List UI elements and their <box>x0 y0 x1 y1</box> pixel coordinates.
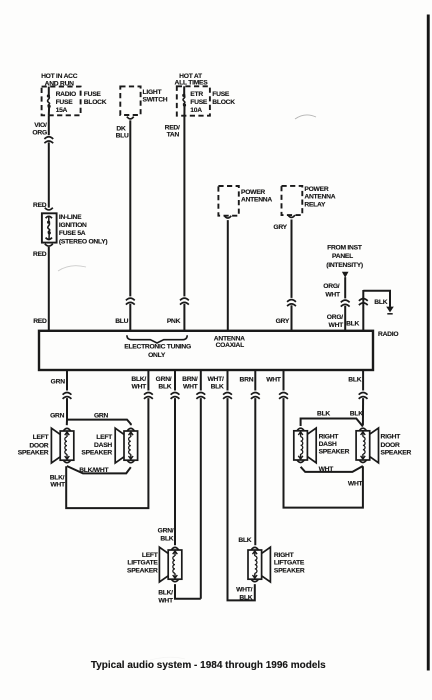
arrow from inst panel <box>342 272 349 278</box>
svg-text:SPEAKER: SPEAKER <box>18 450 49 457</box>
wire ORG/WHT dimmer feed <box>344 277 346 298</box>
light switch S1 dashed box <box>120 86 140 115</box>
svg-text:RED/: RED/ <box>165 124 180 131</box>
svg-text:ORG: ORG <box>32 130 47 137</box>
wire WHT between right speakers <box>301 466 363 472</box>
svg-text:ELECTRONIC TUNING: ELECTRONIC TUNING <box>124 344 191 351</box>
speaker LS2 left dash <box>115 428 137 463</box>
svg-text:LEFT: LEFT <box>142 552 159 559</box>
wire BLK ground jumper <box>363 291 390 331</box>
svg-text:(INTENSITY): (INTENSITY) <box>326 262 363 269</box>
svg-text:COAXIAL: COAXIAL <box>216 342 245 349</box>
svg-text:WHT: WHT <box>158 597 174 604</box>
power antenna M1 dashed box <box>218 186 238 216</box>
svg-text:BLK/: BLK/ <box>131 376 146 383</box>
svg-text:ORG/: ORG/ <box>323 283 339 290</box>
svg-text:WHT: WHT <box>348 480 364 487</box>
svg-text:BRN: BRN <box>240 376 254 383</box>
wire BLK/WHT left liftgate return <box>175 584 201 599</box>
svg-text:BLOCK: BLOCK <box>84 99 107 106</box>
svg-text:PNK: PNK <box>167 318 181 325</box>
svg-text:ANTENNA: ANTENNA <box>304 194 335 201</box>
scan edge bar (decor) <box>427 15 430 671</box>
wire GRN/BLK left liftgate feed <box>174 370 176 390</box>
speaker LS3 left liftgate <box>159 547 181 582</box>
wire GRY to radio <box>291 305 293 331</box>
svg-text:FUSE: FUSE <box>190 99 208 106</box>
speaker RS2 right door <box>356 428 378 463</box>
svg-text:BRN/: BRN/ <box>182 376 198 383</box>
svg-text:BLOCK: BLOCK <box>212 99 235 106</box>
svg-text:RADIO: RADIO <box>56 91 76 98</box>
svg-text:FUSE: FUSE <box>56 99 74 106</box>
wire DK BLU from light switch <box>129 120 131 296</box>
svg-text:LIGHT: LIGHT <box>143 89 163 96</box>
wire PNK to radio <box>183 304 185 331</box>
svg-text:BLK/: BLK/ <box>158 589 173 596</box>
svg-text:GRY: GRY <box>276 318 290 325</box>
fuse block F1 (RADIO FUSE 15A) dashed box <box>42 87 81 116</box>
svg-text:BLK: BLK <box>239 595 252 602</box>
svg-text:LEFT: LEFT <box>33 434 50 441</box>
wire BLK/WHT left return <box>147 370 149 390</box>
svg-text:BLK: BLK <box>160 536 173 543</box>
svg-text:GRN: GRN <box>50 412 65 419</box>
wire BRN right liftgate feed <box>254 370 256 390</box>
svg-text:RIGHT: RIGHT <box>274 552 295 559</box>
svg-text:ORG/: ORG/ <box>327 314 343 321</box>
wire GRN branch to left dash speaker <box>67 420 131 426</box>
in-line ignition fuse F2 box <box>42 213 57 242</box>
svg-text:WHT: WHT <box>319 466 335 473</box>
svg-text:FUSE: FUSE <box>212 91 230 98</box>
svg-text:SWITCH: SWITCH <box>143 97 168 104</box>
ground G1 <box>386 307 394 314</box>
wire BLU to radio <box>129 304 131 331</box>
svg-text:10A: 10A <box>190 107 202 114</box>
svg-text:BLU: BLU <box>115 318 128 325</box>
wire GRN left door feed <box>66 370 68 390</box>
svg-text:IGNITION: IGNITION <box>59 222 87 229</box>
connector cup below relay <box>288 215 295 217</box>
wire WHT/BLK right liftgate return <box>227 370 229 390</box>
fuse block F3 (ETR FUSE 10A) dashed box <box>177 86 210 115</box>
svg-text:IN-LINE: IN-LINE <box>59 214 82 221</box>
svg-text:BLK: BLK <box>346 321 359 328</box>
svg-text:DOOR: DOOR <box>29 442 48 449</box>
svg-text:LIFTGATE: LIFTGATE <box>127 560 158 567</box>
in-line fuse internal symbol <box>46 216 52 218</box>
svg-text:BLK: BLK <box>238 537 251 544</box>
svg-text:POWER: POWER <box>304 186 328 193</box>
svg-text:RELAY: RELAY <box>304 202 326 209</box>
fuse ETR FUSE 10A symbol <box>183 86 185 95</box>
wire BLK right door feed <box>362 370 364 390</box>
wire BLK branch to right dash speaker <box>301 419 363 427</box>
svg-text:GRN/: GRN/ <box>158 528 174 535</box>
speaker RS1 right dash <box>294 428 316 463</box>
svg-text:GRN: GRN <box>51 378 66 385</box>
svg-text:GRN: GRN <box>94 412 109 419</box>
svg-text:FROM INST: FROM INST <box>327 245 363 252</box>
svg-text:DK: DK <box>116 125 126 132</box>
svg-text:WHT: WHT <box>183 383 199 390</box>
svg-text:DASH: DASH <box>94 442 112 449</box>
svg-text:SPEAKER: SPEAKER <box>127 568 158 575</box>
svg-text:LEFT: LEFT <box>96 434 113 441</box>
radio U1 box <box>39 331 373 370</box>
connector V below in-line fuse <box>45 244 53 246</box>
wire GRY from relay <box>291 220 293 298</box>
svg-text:WHT: WHT <box>50 481 66 488</box>
svg-text:WHT/: WHT/ <box>208 376 224 383</box>
svg-text:FUSE: FUSE <box>84 91 102 98</box>
speaker LS1 left door <box>51 428 73 463</box>
connector on BLK wire <box>359 299 368 305</box>
svg-text:BLK: BLK <box>374 299 387 306</box>
svg-text:BLK: BLK <box>348 376 361 383</box>
svg-text:(STEREO ONLY): (STEREO ONLY) <box>59 239 108 246</box>
svg-text:BLU: BLU <box>116 133 129 140</box>
power antenna relay K1 dashed box <box>282 186 303 215</box>
svg-text:RADIO: RADIO <box>378 331 398 338</box>
wire RED below in-line fuse <box>48 247 50 331</box>
svg-text:VIO/: VIO/ <box>34 122 47 129</box>
svg-text:GRY: GRY <box>273 224 287 231</box>
svg-text:GRN/: GRN/ <box>156 376 172 383</box>
svg-text:BLK/WHT: BLK/WHT <box>79 467 109 474</box>
connector on DK BLU wire <box>126 298 135 304</box>
svg-text:POWER: POWER <box>241 189 265 196</box>
svg-text:RED: RED <box>33 251 47 258</box>
wire RED ignition feed <box>48 142 50 207</box>
svg-text:PANEL: PANEL <box>332 253 353 260</box>
svg-text:ANTENNA: ANTENNA <box>241 196 272 203</box>
svg-text:BLK: BLK <box>211 383 224 390</box>
svg-text:ONLY: ONLY <box>148 352 166 359</box>
fuse RADIO FUSE 15A symbol <box>48 87 50 96</box>
svg-text:RED: RED <box>33 318 47 325</box>
wire BRN/WHT left liftgate return <box>200 370 202 390</box>
svg-text:Typical audio system - 1984 th: Typical audio system - 1984 through 1996… <box>91 660 326 671</box>
speaker RS3 right liftgate <box>248 547 270 582</box>
connector cup below light switch <box>127 117 134 119</box>
svg-text:BLK: BLK <box>158 383 171 390</box>
svg-text:SPEAKER: SPEAKER <box>274 567 305 574</box>
svg-text:WHT: WHT <box>325 292 341 299</box>
svg-text:BLK: BLK <box>317 410 330 417</box>
brace electronic tuning only <box>127 335 187 343</box>
svg-text:15A: 15A <box>56 107 68 114</box>
connector on GRY wire <box>287 300 296 306</box>
svg-text:LIFTGATE: LIFTGATE <box>274 560 305 567</box>
svg-text:ETR: ETR <box>190 91 203 98</box>
svg-text:WHT/: WHT/ <box>236 587 252 594</box>
svg-text:WHT: WHT <box>266 376 282 383</box>
wire ORG/WHT to radio <box>344 306 346 331</box>
connector on VIO/ORG wire <box>44 137 53 143</box>
wire VIO/ORG from radio fuse <box>48 115 50 135</box>
wire WHT right return <box>283 370 285 390</box>
svg-text:RIGHT: RIGHT <box>381 434 402 441</box>
wire RED/TAN from ETR fuse <box>183 116 185 297</box>
wire antenna coaxial <box>227 220 229 331</box>
connector on RED/TAN wire <box>180 298 189 304</box>
svg-text:SPEAKER: SPEAKER <box>319 449 350 456</box>
connector cup below power antenna <box>224 216 231 218</box>
svg-text:DASH: DASH <box>319 441 337 448</box>
svg-text:BLK: BLK <box>350 410 363 417</box>
svg-text:HOT IN ACC: HOT IN ACC <box>41 73 78 80</box>
svg-text:SPEAKER: SPEAKER <box>381 449 412 456</box>
wire BLK/WHT between left speakers <box>67 466 131 473</box>
svg-text:DOOR: DOOR <box>381 442 400 449</box>
svg-text:TAN: TAN <box>167 132 180 139</box>
svg-text:SPEAKER: SPEAKER <box>81 450 112 457</box>
svg-text:WHT: WHT <box>329 322 345 329</box>
svg-text:RIGHT: RIGHT <box>319 433 340 440</box>
svg-text:FUSE 5A: FUSE 5A <box>59 230 86 237</box>
connector on ORG/WHT wire <box>341 300 350 306</box>
svg-text:WHT: WHT <box>132 383 148 390</box>
connector V above in-line fuse <box>45 208 53 210</box>
